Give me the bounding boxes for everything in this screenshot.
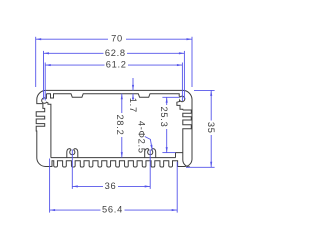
svg-text:25.3: 25.3 — [159, 107, 169, 128]
svg-text:4-Φ2.5: 4-Φ2.5 — [136, 121, 146, 154]
svg-text:36: 36 — [105, 181, 117, 191]
svg-text:1.7: 1.7 — [128, 98, 138, 113]
svg-text:70: 70 — [111, 34, 123, 44]
svg-text:28.2: 28.2 — [115, 115, 125, 136]
svg-text:56.4: 56.4 — [102, 205, 123, 215]
svg-text:61.2: 61.2 — [106, 59, 127, 69]
svg-text:35: 35 — [206, 122, 216, 134]
svg-text:62.8: 62.8 — [105, 48, 126, 58]
